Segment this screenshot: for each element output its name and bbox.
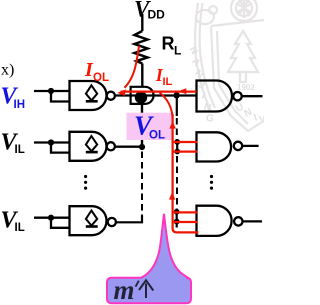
dashed common bus down to G3 output xyxy=(141,152,143,217)
label VOL xyxy=(134,111,165,142)
dashed bus right column upper xyxy=(176,118,178,140)
bus junction dot xyxy=(139,144,145,150)
label VIL row3 xyxy=(1,208,25,235)
node input dot G1 xyxy=(48,88,54,94)
red up arrowhead 1 xyxy=(169,121,175,129)
red input stubs G6 xyxy=(173,212,198,222)
bus stub box to junction xyxy=(141,140,143,148)
svg-text:I: I xyxy=(253,112,259,123)
resistor RL xyxy=(135,31,148,64)
label RL xyxy=(162,34,182,58)
svg-text:IL: IL xyxy=(15,222,25,234)
current IIL red line xyxy=(121,90,197,92)
gate G3 left xyxy=(34,206,116,235)
prime mark xyxy=(136,281,139,287)
svg-text:OL: OL xyxy=(149,129,165,141)
svg-text:N: N xyxy=(187,45,200,57)
svg-text:x): x) xyxy=(1,61,14,78)
tie G6 inputs xyxy=(176,209,178,228)
wire bus elbow to G3 output xyxy=(116,216,142,223)
gate G6 right NAND xyxy=(197,206,263,236)
node junction dot xyxy=(135,91,147,103)
dashed bus right column lower xyxy=(176,156,178,207)
node D symbol xyxy=(131,87,154,104)
arrowhead IIL mid xyxy=(178,88,186,94)
current IOL red curve from resistor to output xyxy=(125,46,140,88)
svg-text:IH: IH xyxy=(14,99,26,111)
svg-text:m: m xyxy=(114,275,135,305)
wire resistor to node xyxy=(141,64,143,88)
up arrow glyph xyxy=(139,280,153,298)
wire bus node to VOL box xyxy=(141,104,143,113)
VOL label box xyxy=(127,113,173,140)
gate G5 right NAND xyxy=(197,132,259,161)
svg-text:A: A xyxy=(189,56,202,69)
svg-text:DD: DD xyxy=(148,8,166,22)
red up arrowhead 2 xyxy=(169,192,175,200)
svg-text:R: R xyxy=(162,34,175,54)
red input stubs G5 xyxy=(173,142,198,152)
ellipsis left column xyxy=(84,175,87,190)
svg-text:1902: 1902 xyxy=(237,83,255,92)
svg-text:G: G xyxy=(205,113,214,125)
svg-text:N: N xyxy=(193,68,206,81)
label IIL xyxy=(155,65,173,88)
svg-text:IL: IL xyxy=(163,76,173,88)
label VIH xyxy=(1,83,26,111)
gate G4 right NAND xyxy=(197,81,263,112)
tie junction dot G4 input xyxy=(173,92,179,98)
svg-text:OL: OL xyxy=(93,72,109,84)
svg-text:L: L xyxy=(174,44,181,58)
label VDD xyxy=(134,0,165,22)
tie G5 inputs xyxy=(176,141,178,154)
red branch curve from IIL line to bundle xyxy=(160,93,173,119)
wire tie below G4 dot xyxy=(176,95,178,116)
gate G2 left xyxy=(34,132,115,161)
label VIL row2 xyxy=(1,130,25,157)
watermark seal lettering xyxy=(187,45,268,126)
watermark university seal xyxy=(195,0,264,131)
wire G2 output to bus junction xyxy=(116,146,142,148)
ellipsis right column xyxy=(210,175,213,190)
svg-text:): ) xyxy=(0,190,1,205)
svg-text:IL: IL xyxy=(15,144,25,156)
wire G1 output to node to right gate xyxy=(116,94,197,96)
wire VDD lead xyxy=(141,14,143,31)
label IOL xyxy=(84,59,109,84)
node input dot G2 xyxy=(48,139,54,145)
arrowhead IOL at bubble xyxy=(117,89,125,96)
node input dot G3 xyxy=(48,215,54,221)
red bundle vertical with bottom corner xyxy=(173,114,199,232)
gate G1 left (open-collector NAND) xyxy=(34,81,115,110)
callout balloon m up xyxy=(107,214,191,303)
